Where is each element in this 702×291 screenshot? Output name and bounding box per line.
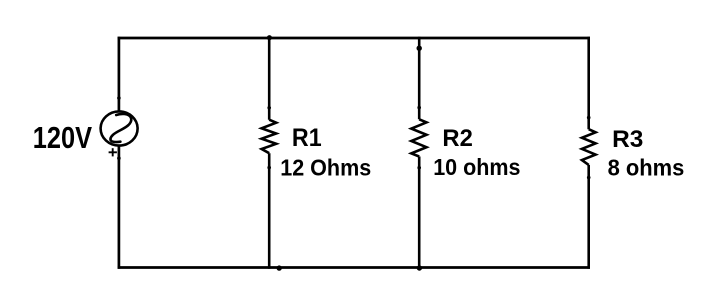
wire joint tick: source bottom [117,156,121,160]
svg-text:R3: R3 [612,126,643,153]
wire: top horizontal bus [118,37,590,40]
wire: R1 branch top stub [268,37,271,120]
resistor R3 [582,129,596,165]
wire joint tick: R2 top [417,106,421,110]
svg-text:R2: R2 [442,125,472,152]
junction dot: R1 top node [267,35,272,40]
wire joint tick: R3 top [587,116,591,120]
svg-text:12 Ohms: 12 Ohms [280,155,371,181]
wire joint tick: R1 bottom [267,166,271,170]
svg-text:R1: R1 [292,125,322,153]
wire joint tick: R2 bottom [417,166,421,170]
junction dot: R2 bottom node [417,265,422,270]
svg-text:10 ohms: 10 ohms [433,154,520,180]
resistor R1 [262,120,277,154]
resistor R2 [411,119,426,156]
wire: R2 branch top stub [418,37,421,120]
wire: R2 branch bottom stub [418,157,421,269]
wire: left edge (source branch) [118,37,121,269]
wire joint tick: source top [117,96,121,100]
wire joint tick: R1 top [267,106,271,110]
wire joint tick: R3 bottom [587,176,591,180]
junction dot: R1 bottom node (offset right) [277,265,282,270]
wire: R3 branch (right edge) top stub [587,37,590,130]
svg-text:8 ohms: 8 ohms [608,154,685,181]
polarity + of source [109,148,117,156]
svg-text:120V: 120V [33,121,93,155]
wire: bottom horizontal bus [118,266,590,269]
wire: R3 branch (right edge) bottom stub [587,165,590,269]
wire: R1 branch bottom stub [268,153,271,269]
voltage source V1 (AC) [101,111,138,145]
junction dot: R2 top node (below bus) [417,46,422,51]
